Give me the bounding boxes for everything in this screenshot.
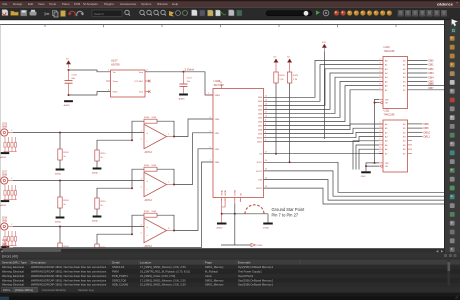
wire U111 A6 routing — [359, 149, 379, 169]
wire J108 to op-amp input — [13, 226, 144, 228]
svg-text:17_[SMS]_SMS1_Memory: (3.8), 2: 17_[SMS]_SMS1_Memory: (3.8), 2.50 — [140, 278, 186, 282]
svg-text:74HC245: 74HC245 — [384, 113, 396, 117]
op-amp AD712 row 2 — [141, 172, 175, 202]
svg-text:DB10: DB10 — [424, 130, 431, 134]
node inverting input junction row 3 — [131, 233, 133, 235]
net label 2.5Vref — [185, 67, 195, 71]
svg-text:AGND: AGND — [221, 189, 224, 195]
svg-text:GND: GND — [361, 176, 366, 178]
palette tool icons — [450, 36, 455, 252]
svg-text:Warning: Warning — [2, 278, 12, 282]
wire feedback to output row 2 — [157, 169, 174, 184]
svg-text:27: 27 — [265, 152, 267, 154]
schematic sheet frame — [0, 25, 446, 249]
wire U111 B3 to net DB11 — [408, 136, 423, 138]
svg-text:DIN: DIN — [258, 179, 262, 181]
wire DB6 U108 to U110 buffer — [264, 86, 384, 122]
wire J106 to op-amp input — [13, 132, 144, 134]
svg-text:DB8: DB8 — [424, 122, 430, 126]
svg-text:4: 4 — [108, 89, 109, 91]
svg-text:Description: Description — [31, 260, 46, 264]
wire C106 to U107 GND — [69, 92, 111, 95]
log row 5 — [0, 282, 460, 286]
svg-text:SMS1_Memory: SMS1_Memory — [205, 283, 224, 287]
ground AGND J108 shield — [0, 246, 9, 253]
svg-text:6: 6 — [147, 70, 148, 72]
svg-text:Sys(SSB) OnBoard Memory1: Sys(SSB) OnBoard Memory1 — [238, 265, 274, 269]
log row 3 — [0, 274, 460, 278]
no-connect X pins U107 right — [145, 80, 151, 93]
svg-text:91k5: 91k5 — [152, 211, 158, 213]
svg-text:DRCs: DRCs — [3, 288, 11, 292]
off-page connector DGND — [251, 243, 263, 247]
annotation ellipse ground star — [245, 205, 264, 214]
svg-text:cādence: cādence — [437, 1, 454, 6]
svg-text:AGND: AGND — [179, 97, 186, 100]
log table header — [0, 259, 460, 264]
node ground star junctions — [221, 213, 236, 215]
svg-text:Warning: Warning — [2, 270, 12, 274]
svg-text:DRC Type: DRC Type — [13, 260, 27, 264]
svg-text:Help: Help — [172, 2, 179, 6]
wire U110 B0 to net DB0 — [408, 59, 428, 61]
pin stub U108 VDD top — [220, 82, 222, 88]
svg-text:Session Log: Session Log — [78, 288, 94, 292]
svg-text:Test Power Supply1: Test Power Supply1 — [238, 270, 262, 274]
log row 1 — [0, 265, 460, 269]
log panel tabs — [0, 287, 460, 293]
svg-text:Search: Search — [94, 12, 104, 16]
svg-text:DB11: DB11 — [424, 135, 431, 139]
ground AGND under R104 — [55, 263, 64, 270]
svg-text:SCLK: SCLK — [257, 162, 263, 164]
svg-text:2: 2 — [141, 233, 142, 235]
svg-text:DGND: DGND — [235, 189, 237, 195]
connector J106 shield pins — [3, 137, 16, 152]
svg-text:SI Analysis: SI Analysis — [83, 2, 98, 6]
node U110 OE junction — [374, 102, 376, 104]
svg-text:C106: C106 — [72, 75, 78, 77]
svg-text:Sys(CPSU)1: Sys(CPSU)1 — [238, 274, 254, 278]
svg-text:4: 4 — [380, 67, 381, 69]
svg-text:7: 7 — [168, 182, 169, 184]
svg-text:1: 1 — [11, 224, 12, 226]
svg-text:2.5Vref: 2.5Vref — [185, 67, 195, 71]
power 5V (ref block) — [66, 58, 71, 67]
svg-text:+: + — [146, 225, 148, 229]
svg-text:5: 5 — [380, 135, 381, 137]
net label DB2 — [429, 67, 435, 71]
net label DB0 — [429, 59, 435, 63]
svg-text:J107: J107 — [2, 172, 8, 174]
wire DB11 U108 to U111 buffer — [264, 137, 384, 142]
wire DB10 U108 to U111 buffer — [264, 132, 384, 137]
toolbar zoom icons — [125, 10, 242, 17]
svg-text:+: + — [146, 179, 148, 183]
node divider junction J107 — [59, 180, 61, 182]
svg-text:3: 3 — [380, 63, 381, 65]
svg-text:28: 28 — [220, 82, 222, 84]
resistor R120 pull-up — [274, 66, 286, 154]
svg-text:[Online DRCs]: [Online DRCs] — [15, 288, 33, 292]
resistor R121 pull-up — [287, 66, 299, 163]
node divider junction J106 — [59, 132, 61, 134]
net label DB3 — [429, 71, 435, 75]
svg-text:Temp: Temp — [113, 81, 119, 83]
svg-text:DGND: DGND — [257, 245, 263, 247]
svg-text:23: 23 — [265, 186, 267, 188]
toolbar right icons — [398, 10, 447, 16]
svg-text:9: 9 — [380, 88, 381, 90]
wire U110 B1 to net DB1 — [408, 64, 428, 66]
svg-text:U110: U110 — [384, 45, 391, 49]
resistor R114 gain — [95, 150, 106, 168]
svg-text:Plugins: Plugins — [104, 2, 114, 6]
wire inverting input node row 1 — [97, 121, 144, 150]
node op-amp output junction row 3 — [173, 230, 175, 232]
svg-text:Tools: Tools — [49, 2, 57, 6]
wire 5V to U107 Vin — [69, 70, 111, 72]
main toolbar — [0, 8, 460, 21]
resistor R141 feedback — [144, 165, 157, 171]
ground AGND under R103 — [55, 217, 64, 224]
wire op-amp2 output to U108 VIN1 — [174, 133, 213, 185]
svg-text:ADB_CLK(M): ADB_CLK(M) — [112, 283, 128, 287]
voltage reference U107 AD780 — [106, 58, 148, 97]
wire CS U108 to U111 — [264, 153, 384, 155]
svg-text:VREF: VREF — [215, 95, 221, 97]
ground AGND J106 shield — [0, 152, 9, 159]
panel vertical scrollbar — [448, 260, 451, 286]
node divider junction J108 — [59, 226, 61, 228]
svg-text:WARNING(ORCAP-1801): Net has f: WARNING(ORCAP-1801): Net has fewer than … — [31, 274, 107, 278]
annotation text Ground Star Point — [272, 207, 306, 218]
svg-text:AD712: AD712 — [145, 199, 153, 202]
svg-text:Electrical: Electrical — [13, 283, 24, 287]
node op-amp output junction row 2 — [173, 184, 175, 186]
power 5V0 buffer supply — [322, 42, 327, 51]
wire U111 DIR/OE to ground — [366, 163, 379, 171]
log row 4 — [0, 278, 460, 282]
wire U110 B3 to net DB3 — [408, 72, 428, 74]
net label DB4 — [429, 75, 435, 79]
svg-text:2: 2 — [108, 70, 109, 72]
svg-text:Page: Page — [205, 260, 212, 264]
wire U111 A4 routing — [353, 141, 379, 170]
wire DOUT to right edge — [264, 171, 447, 196]
toolbar search box — [92, 10, 122, 16]
svg-text:−: − — [146, 188, 148, 192]
svg-text:SMS1_Memory: SMS1_Memory — [205, 265, 224, 269]
ground AGND under C106 — [64, 100, 73, 107]
ground AGND under R115 — [92, 216, 101, 223]
wire SCLK to right edge — [264, 162, 447, 192]
toolbar icons file group — [2, 10, 37, 17]
svg-text:Design: Design — [13, 2, 23, 6]
wire op-amp1 output to U108 VIN0 — [174, 119, 213, 137]
svg-text:17_[SMS]_SMS1_Memory: (3.8), 2: 17_[SMS]_SMS1_Memory: (3.8), 2.50 — [140, 265, 186, 269]
svg-text:Warning: Warning — [2, 265, 12, 269]
svg-text:DB0: DB0 — [429, 59, 435, 63]
bottom log panel — [0, 253, 460, 300]
svg-text:Window: Window — [157, 2, 169, 6]
node 2.5Vref junction — [183, 71, 185, 73]
svg-text:R115: R115 — [100, 201, 106, 203]
svg-text:AGND: AGND — [216, 226, 223, 229]
node U111 DIR junction — [374, 162, 376, 164]
svg-text:J106: J106 — [2, 124, 8, 126]
svg-text:6: 6 — [380, 75, 381, 77]
node 5V junction — [68, 69, 70, 71]
wire feedback to output row 3 — [157, 215, 174, 230]
wire op-amp3 output to U108 VIN2 — [174, 149, 213, 231]
wire DB4 U108 to U110 buffer — [264, 77, 384, 113]
svg-text:7: 7 — [380, 143, 381, 145]
wire U108 DGND pin down — [234, 198, 236, 246]
node inverting input junction row 1 — [131, 139, 133, 141]
svg-text:Severity: Severity — [2, 260, 13, 264]
buffer U111 74HC245 — [379, 109, 408, 172]
net label DB6 — [429, 82, 435, 86]
wire DB1 U108 to U110 buffer — [264, 65, 384, 102]
svg-text:Place: Place — [62, 2, 70, 6]
svg-text:Warning: Warning — [2, 274, 12, 278]
svg-text:15_[SMS]_SMS1_Memory: (3.8), 2: 15_[SMS]_SMS1_Memory: (3.8), 2.50 — [140, 283, 186, 287]
wire U111 A5 routing — [356, 145, 379, 170]
wire DB8 U108 to U111 buffer — [264, 124, 384, 130]
svg-text:DB3: DB3 — [429, 71, 435, 75]
svg-text:8: 8 — [168, 228, 169, 230]
ground AGND J107 shield — [0, 200, 9, 207]
svg-text:View: View — [38, 2, 45, 6]
svg-text:74HC245: 74HC245 — [384, 49, 396, 53]
svg-text:J109: J109 — [2, 240, 8, 242]
svg-text:WARNING(ORCAP-1801): Net has f: WARNING(ORCAP-1801): Net has fewer than … — [31, 283, 107, 287]
capacitor C106 — [65, 70, 78, 95]
pin stub U108 pin4 bottom — [240, 198, 242, 203]
svg-text:DB10: DB10 — [257, 138, 263, 140]
net label DB11 — [424, 135, 431, 139]
svg-text:DB9: DB9 — [424, 126, 430, 130]
svg-text:M_Flyback: M_Flyback — [205, 270, 219, 274]
svg-text:Warning: Warning — [2, 283, 12, 287]
svg-text:3: 3 — [380, 126, 381, 128]
svg-text:AGND: AGND — [92, 171, 99, 174]
wire DB9 U108 to U111 buffer — [264, 128, 384, 133]
toolbar colored icons — [316, 10, 392, 16]
svg-text:R140: R140 — [144, 117, 150, 119]
node U111 OE junction — [365, 165, 367, 167]
ground GND U111 — [361, 171, 371, 178]
svg-text:AGND: AGND — [55, 220, 62, 223]
svg-text:R120: R120 — [279, 75, 285, 77]
svg-text:DGND: DGND — [263, 227, 270, 229]
svg-text:DOUT: DOUT — [256, 171, 263, 173]
svg-text:AD7490: AD7490 — [214, 83, 225, 87]
svg-text:AGND: AGND — [224, 189, 227, 195]
wire DB0 U108 to U110 buffer — [264, 60, 384, 97]
wire U108 VREF pin stub — [205, 93, 213, 95]
wire DB3 U108 to U110 buffer — [264, 73, 384, 109]
svg-text:Options: Options — [141, 2, 152, 6]
svg-text:AGND: AGND — [92, 219, 99, 222]
wire J107 to op-amp input — [13, 180, 144, 182]
power 5V pull-up R120 — [274, 57, 279, 66]
ADC U108 AD7490 — [210, 79, 268, 202]
resistor R103 termination — [58, 181, 70, 217]
wire U110 B4 to net DB4 — [408, 76, 428, 78]
resistor R142 feedback — [144, 211, 157, 217]
resistor R115 gain — [95, 198, 106, 216]
ground AGND under R114 — [92, 168, 101, 175]
menu bar — [0, 0, 460, 8]
svg-text:Electrical: Electrical — [13, 274, 24, 278]
wire DB2 U108 to U110 buffer — [264, 69, 384, 106]
svg-text:R114: R114 — [100, 153, 106, 155]
log row 2 — [0, 269, 460, 273]
svg-text:SMB: SMB — [2, 127, 7, 129]
svg-text:R141: R141 — [144, 165, 150, 167]
connector J107 shield pins — [3, 185, 16, 200]
svg-text:Electrical: Electrical — [13, 270, 24, 274]
svg-text:Electrical: Electrical — [13, 278, 24, 282]
svg-text:Detail: Detail — [112, 260, 120, 264]
svg-text:O/P SEL: O/P SEL — [135, 81, 144, 83]
svg-text:3: 3 — [141, 130, 142, 132]
wire U107 Vout to U108 VREF (net 2.5Vref) — [145, 72, 213, 95]
svg-text:Accessories: Accessories — [120, 2, 137, 6]
wire feedback to output row 1 — [157, 121, 174, 136]
svg-text:SSRCLK6: SSRCLK6 — [112, 265, 125, 269]
cadence logo — [437, 1, 459, 6]
wire inverting input node row 3 — [97, 215, 144, 244]
net label DB1 — [429, 63, 435, 67]
svg-text:24_[SMS]_Clock: (2.00, 2.50): 24_[SMS]_Clock: (2.00, 2.50) — [140, 274, 175, 278]
svg-text:R102: R102 — [63, 152, 69, 154]
canvas horizontal scrollbar — [0, 248, 446, 253]
svg-text:DIR: DIR — [385, 163, 389, 165]
svg-text:G: G — [452, 28, 456, 33]
svg-text:SMB: SMB — [2, 175, 7, 177]
capacitor C107 — [180, 72, 193, 94]
svg-text:AGND: AGND — [0, 156, 7, 159]
svg-text:7: 7 — [380, 79, 381, 81]
svg-text:PCB: PCB — [74, 2, 80, 6]
wire BUSY to right edge — [264, 188, 447, 204]
svg-text:DB6: DB6 — [429, 82, 435, 86]
svg-text:Command Window: Command Window — [42, 288, 67, 292]
node op-amp output junction row 1 — [173, 136, 175, 138]
connector J108 shield pins — [3, 231, 16, 246]
svg-text:16_[SMTR]_RS1_M_Flyback: (5.70: 16_[SMTR]_RS1_M_Flyback: (5.70, 8.10) — [140, 270, 190, 274]
svg-text:WARNING(ORCAP-1801): Net has f: WARNING(ORCAP-1801): Net has fewer than … — [31, 278, 107, 282]
toolbar icons edit group — [44, 11, 84, 19]
svg-text:Pin 7 to Pin 27: Pin 7 to Pin 27 — [272, 212, 299, 217]
svg-text:−: − — [146, 234, 148, 238]
svg-text:Externals: Externals — [238, 260, 251, 264]
wire U110 DIR/OE tie-down — [375, 99, 380, 163]
svg-text:DB11: DB11 — [257, 142, 263, 144]
wire U110 B5 to net DB5 — [408, 80, 428, 82]
node CS pull-up junction — [275, 153, 277, 155]
connector J109 SMB input (partial) — [2, 240, 13, 250]
svg-text:U111: U111 — [384, 109, 390, 113]
svg-text:2: 2 — [380, 58, 381, 60]
wire 5V0 supply drop — [323, 51, 325, 139]
wire U108 AGND pins — [222, 198, 225, 223]
svg-text:3: 3 — [141, 224, 142, 226]
svg-text:C107: C107 — [187, 78, 193, 80]
right tool palette — [444, 20, 460, 262]
svg-text:−: − — [146, 140, 148, 144]
wire DGND branch to off-page — [221, 244, 251, 246]
svg-text:File: File — [3, 2, 8, 6]
wire DB7 U108 to U110 buffer — [264, 90, 384, 126]
resistor R104 termination — [58, 227, 70, 263]
node SCLK pull-up junction — [289, 161, 291, 163]
svg-text:R142: R142 — [144, 211, 150, 213]
pin stub U111 B7 — [408, 152, 413, 154]
svg-text:DIR: DIR — [385, 99, 389, 101]
svg-text:R121: R121 — [293, 75, 299, 77]
ground AGND under R102 — [55, 169, 64, 176]
svg-text:7: 7 — [210, 160, 211, 162]
node inverting input junction row 2 — [131, 187, 133, 189]
svg-text:BUSY: BUSY — [256, 188, 262, 190]
svg-text:Electrical: Electrical — [13, 265, 24, 269]
wire inverting input node row 2 — [97, 169, 144, 198]
svg-text:2: 2 — [141, 187, 142, 189]
svg-text:4: 4 — [210, 117, 211, 119]
svg-text:SSRCLTQ8: SSRCLTQ8 — [112, 278, 126, 282]
svg-text:1: 1 — [208, 93, 209, 95]
wire U110 B2 to net DB2 — [408, 68, 428, 70]
svg-text:8: 8 — [380, 84, 381, 86]
svg-text:Location: Location — [140, 260, 152, 264]
svg-text:AGND: AGND — [64, 104, 71, 107]
svg-text:9: 9 — [380, 151, 381, 153]
svg-text:6: 6 — [380, 139, 381, 141]
net label DB9 — [424, 126, 430, 130]
svg-text:J108: J108 — [2, 218, 8, 220]
svg-text:PCB_PORT1: PCB_PORT1 — [112, 274, 128, 278]
connector J107 SMB input — [1, 172, 13, 185]
status strip — [0, 293, 460, 300]
svg-text:SMS1_Memory: SMS1_Memory — [205, 278, 224, 282]
op-amp AD712 row 1 — [141, 124, 175, 154]
svg-text:4: 4 — [380, 130, 381, 132]
svg-text:WARNING(ORCAP-1801): Net has f: WARNING(ORCAP-1801): Net has fewer than … — [31, 270, 107, 274]
connector J106 SMB input — [1, 124, 13, 137]
svg-text:PWM: PWM — [112, 270, 119, 274]
svg-text:GND: GND — [113, 92, 118, 94]
svg-text:✂: ✂ — [44, 11, 50, 18]
svg-text:Edit: Edit — [28, 2, 33, 6]
net label DB7 — [429, 86, 435, 90]
pin stub U111 B4 — [408, 140, 413, 142]
palette G icon — [451, 27, 457, 33]
resistor R102 termination — [58, 133, 70, 169]
power 5V pull-up R121 — [287, 57, 292, 66]
wire DB5 U108 to U110 buffer — [264, 81, 384, 117]
svg-text:Vout: Vout — [139, 71, 144, 74]
svg-text:AD712: AD712 — [145, 151, 153, 154]
svg-text:Trim: Trim — [139, 91, 143, 94]
net label DB8 — [424, 122, 430, 126]
svg-text:AGND: AGND — [0, 204, 7, 207]
ground AGND U108 — [216, 223, 226, 230]
resistor R140 feedback — [144, 117, 157, 123]
